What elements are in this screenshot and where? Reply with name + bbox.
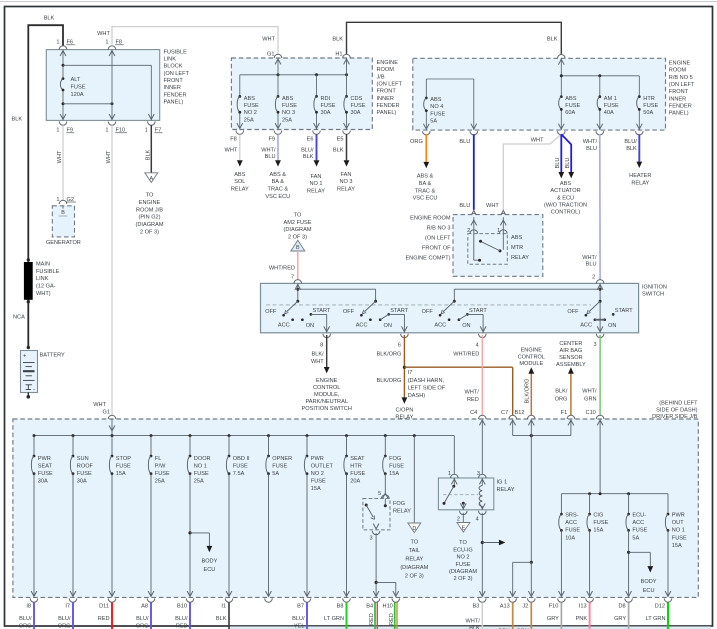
connector pin 6 [398, 334, 408, 349]
svg-text:C7: C7 [501, 410, 508, 416]
fusible link internal wiring [62, 50, 152, 121]
svg-text:F10: F10 [549, 604, 559, 610]
svg-text:3: 3 [477, 471, 480, 477]
svg-text:WHT: WHT [486, 203, 499, 209]
svg-text:SUN: SUN [77, 456, 89, 462]
svg-text:FAN: FAN [341, 172, 352, 178]
label BLK at R/B No5 [547, 37, 558, 43]
off-page reference E - to ECU-IG NO 2 fuse [449, 523, 477, 583]
connector I7 bottom [65, 591, 76, 610]
wire A8 [136, 602, 151, 629]
svg-text:NO 1: NO 1 [194, 463, 207, 469]
connector I1 bottom [221, 591, 232, 610]
connector pin 8 [320, 334, 330, 349]
svg-text:BLK/: BLK/ [312, 351, 325, 357]
svg-text:ORG: ORG [410, 139, 423, 145]
svg-text:ABS: ABS [430, 97, 441, 103]
svg-text:2 OF 3): 2 OF 3) [454, 576, 473, 582]
svg-text:ECU: ECU [643, 588, 655, 594]
svg-text:E: E [462, 526, 466, 532]
connector IG1 pin 2 [457, 502, 467, 523]
wire I7 [58, 602, 73, 629]
svg-text:NO 3: NO 3 [282, 110, 295, 116]
svg-text:1: 1 [56, 128, 59, 134]
svg-text:30A: 30A [321, 110, 331, 116]
connector H10 bottom [383, 591, 400, 610]
svg-text:FRONT: FRONT [164, 78, 184, 84]
connector B3 bottom [472, 591, 486, 610]
connector 3 fog relay out [369, 524, 379, 542]
svg-text:5A: 5A [632, 535, 639, 541]
connector AM1 out [596, 124, 604, 135]
svg-text:ORG: ORG [136, 624, 149, 629]
svg-text:BLK: BLK [547, 37, 558, 43]
svg-text:OFF: OFF [567, 309, 579, 315]
wire D12 [646, 602, 669, 629]
svg-text:TO: TO [294, 213, 302, 219]
svg-text:RED: RED [467, 397, 479, 403]
connector F10 bottom [549, 591, 565, 610]
svg-text:FUSE: FUSE [71, 85, 86, 91]
wire H10 [389, 602, 397, 629]
svg-text:(ON LEFT: (ON LEFT [425, 236, 451, 242]
svg-text:IGNITION: IGNITION [642, 284, 667, 290]
svg-text:ECU-: ECU- [632, 513, 646, 519]
svg-text:WHT: WHT [225, 148, 238, 154]
svg-text:ABS &: ABS & [417, 174, 434, 180]
svg-text:OFF: OFF [422, 309, 434, 315]
svg-text:FUSE: FUSE [311, 479, 326, 485]
svg-text:7: 7 [291, 275, 294, 281]
svg-text:B8: B8 [337, 604, 344, 610]
svg-text:DRIVER SIDE J/B: DRIVER SIDE J/B [652, 414, 698, 420]
svg-text:WHT: WHT [106, 150, 112, 163]
svg-text:GRN: GRN [584, 396, 596, 402]
wire C4 to IG1 pin 3 [481, 420, 483, 474]
svg-text:30A: 30A [351, 110, 361, 116]
svg-text:ACC: ACC [632, 520, 644, 526]
svg-text:BLK/ORG: BLK/ORG [525, 379, 531, 404]
svg-text:LT GRN: LT GRN [646, 616, 666, 622]
wire B3 [466, 602, 483, 629]
svg-text:BLK: BLK [303, 154, 314, 160]
svg-text:FUSE: FUSE [565, 528, 580, 534]
svg-text:GRY: GRY [614, 616, 626, 622]
svg-text:MTR: MTR [511, 245, 523, 251]
svg-text:FUSE: FUSE [244, 103, 259, 109]
wire BLK to fan no 3 relay [333, 134, 355, 192]
svg-text:(PIN G2): (PIN G2) [138, 215, 160, 221]
wire BLK/WHT pin 8 to ECM [302, 335, 352, 412]
svg-text:BA &: BA & [419, 181, 432, 187]
wire BLU to ABS MTR relay [459, 134, 473, 210]
svg-text:ABS: ABS [234, 172, 245, 178]
svg-text:WHT): WHT) [36, 291, 51, 297]
svg-text:B12: B12 [515, 410, 525, 416]
wire WHT/BLU to ABS ECU [261, 134, 290, 199]
connector IG1 pin 1 [448, 471, 458, 485]
svg-text:F9: F9 [268, 137, 275, 143]
fuse SUN ROOF FUSE 30A [70, 436, 93, 597]
svg-text:ECU-IG: ECU-IG [453, 547, 473, 553]
svg-text:START: START [615, 308, 633, 314]
svg-text:RDI: RDI [321, 96, 331, 102]
svg-text:(ON LEFT: (ON LEFT [377, 81, 403, 87]
svg-text:ENGINE: ENGINE [669, 61, 691, 67]
svg-text:AM2 FUSE: AM2 FUSE [284, 220, 312, 226]
wire BLK top to H1 and R/B No5 [347, 22, 562, 54]
wire WHT F10 to G1 of driver J/B [106, 125, 112, 415]
fuse HTR FUSE 50A [637, 95, 659, 116]
svg-text:G1: G1 [267, 51, 274, 57]
svg-text:FUSE: FUSE [643, 103, 658, 109]
label WHT at G1 [262, 36, 275, 42]
svg-text:10A: 10A [565, 535, 575, 541]
svg-text:WHT/: WHT/ [583, 139, 598, 145]
connector F1 [561, 410, 575, 425]
svg-text:WHT/: WHT/ [466, 618, 481, 624]
svg-text:RED: RED [389, 613, 395, 625]
svg-text:B: B [61, 210, 65, 216]
svg-text:A8: A8 [141, 604, 148, 610]
connector G2 [56, 197, 76, 204]
svg-text:INNER: INNER [669, 96, 686, 102]
connector E6 [307, 123, 321, 143]
fuse PWR OUT NO 1 FUSE 15A [665, 494, 687, 597]
svg-text:OFF: OFF [343, 309, 355, 315]
engine room J/B internal bus [240, 58, 348, 130]
connector E5 [337, 123, 351, 143]
svg-text:1: 1 [105, 40, 108, 46]
wire ORG to ABS ECU [410, 134, 437, 201]
svg-text:BLK: BLK [145, 149, 151, 160]
svg-text:I8: I8 [26, 604, 31, 610]
svg-text:R/B NO 5: R/B NO 5 [669, 75, 693, 81]
svg-text:DASH): DASH) [408, 393, 426, 399]
svg-text:25A: 25A [194, 479, 204, 485]
IG1 relay switch [443, 478, 456, 505]
svg-text:1: 1 [56, 197, 59, 203]
svg-text:ABS: ABS [565, 96, 576, 102]
wire BLK F7 [145, 125, 151, 173]
svg-text:FUSE: FUSE [593, 520, 608, 526]
svg-text:MODULE: MODULE [519, 361, 543, 367]
wire A13 [498, 602, 512, 629]
svg-text:BLU/: BLU/ [19, 616, 32, 622]
svg-text:7.5A: 7.5A [233, 471, 245, 477]
svg-text:(DIAGRAM: (DIAGRAM [284, 227, 312, 233]
svg-text:ACC: ACC [356, 322, 368, 328]
svg-text:WHT/: WHT/ [261, 148, 276, 154]
svg-text:I1: I1 [221, 604, 226, 610]
svg-text:BLK: BLK [332, 36, 343, 42]
svg-text:PANEL): PANEL) [669, 111, 689, 117]
svg-text:2 OF 3): 2 OF 3) [405, 573, 424, 579]
svg-text:PWR: PWR [311, 456, 324, 462]
svg-text:NO 2: NO 2 [244, 110, 257, 116]
svg-text:BLK: BLK [333, 148, 344, 154]
connector H1 into R/B No5 [558, 55, 566, 65]
svg-text:MAIN: MAIN [36, 261, 50, 267]
svg-text:TO: TO [410, 539, 418, 545]
label NCA [13, 315, 25, 321]
fuse SEAT HTR FUSE 20A [344, 436, 366, 597]
svg-text:BLU/: BLU/ [301, 148, 314, 154]
svg-text:5A: 5A [272, 471, 279, 477]
svg-text:BLOCK: BLOCK [164, 64, 183, 70]
svg-text:IG 1: IG 1 [497, 480, 508, 486]
wire to tail relay [413, 436, 415, 523]
svg-text:SWITCH: SWITCH [642, 291, 664, 297]
connector C4 [470, 410, 486, 425]
svg-text:RELAY: RELAY [337, 187, 355, 193]
svg-text:FUSE: FUSE [351, 103, 366, 109]
svg-text:25A: 25A [155, 479, 165, 485]
svg-text:TRAC &: TRAC & [415, 188, 436, 194]
svg-text:BLU/: BLU/ [175, 616, 188, 622]
svg-text:RELAY: RELAY [405, 556, 423, 562]
svg-text:FENDER: FENDER [377, 103, 400, 109]
svg-text:CIG: CIG [593, 513, 603, 519]
fuse ALT FUSE 120A [60, 77, 85, 98]
svg-text:(W/O TRACTION: (W/O TRACTION [544, 202, 587, 208]
wire D8 [614, 602, 629, 629]
connector G1 engine J/B [267, 51, 282, 64]
svg-text:B3: B3 [472, 604, 479, 610]
svg-text:BLK/ORG: BLK/ORG [377, 351, 402, 357]
wire B7 [292, 602, 307, 629]
svg-text:8: 8 [320, 342, 323, 348]
svg-text:40A: 40A [604, 110, 614, 116]
svg-text:VSC ECU: VSC ECU [265, 194, 290, 200]
svg-text:TRAC &: TRAC & [268, 187, 289, 193]
svg-text:BLU/: BLU/ [58, 616, 71, 622]
connector pin 7 [291, 275, 301, 290]
connector pin 3 [593, 334, 603, 348]
connector J2 bottom [522, 591, 535, 610]
svg-text:B10: B10 [177, 604, 187, 610]
connector D8 bottom [618, 591, 632, 610]
svg-text:BA &: BA & [272, 179, 285, 185]
svg-text:1: 1 [145, 128, 148, 134]
svg-text:RED: RED [98, 616, 110, 622]
wire WHT/RED pin 4 to C4 [453, 335, 482, 416]
svg-text:OBD II: OBD II [233, 456, 250, 462]
svg-text:1: 1 [448, 471, 451, 477]
svg-text:WHT: WHT [262, 36, 275, 42]
svg-text:DOOR: DOOR [194, 456, 211, 462]
svg-text:CONTROL): CONTROL) [551, 210, 580, 216]
svg-text:HEATER: HEATER [629, 173, 651, 179]
ignition switch box [261, 283, 667, 332]
svg-text:F1: F1 [561, 410, 568, 416]
svg-text:ROOM J/B: ROOM J/B [136, 207, 163, 213]
svg-text:1: 1 [56, 40, 59, 46]
svg-text:NO 3: NO 3 [339, 179, 352, 185]
svg-text:SENSOR: SENSOR [559, 355, 583, 361]
svg-text:(12 GA-: (12 GA- [36, 284, 56, 290]
svg-text:25A: 25A [244, 117, 254, 123]
connector unused bottom [265, 591, 273, 602]
wire C10 to acc bus [599, 420, 601, 494]
svg-text:FUSE: FUSE [155, 471, 170, 477]
svg-text:D12: D12 [655, 604, 665, 610]
svg-text:D: D [412, 526, 416, 532]
connector A13 bottom [500, 591, 517, 610]
label WHT top [97, 31, 110, 37]
svg-text:A: A [149, 176, 153, 182]
svg-text:FAN: FAN [311, 174, 322, 180]
svg-text:NO 2: NO 2 [456, 555, 469, 561]
svg-text:I7: I7 [408, 370, 413, 376]
svg-text:TO: TO [146, 193, 154, 199]
svg-text:ECU: ECU [203, 567, 215, 573]
branch ECU-ACC to body ECU [627, 551, 657, 594]
svg-text:1: 1 [497, 228, 500, 234]
svg-text:PANEL): PANEL) [377, 110, 397, 116]
connector F8 top [105, 40, 123, 56]
svg-text:WHT: WHT [97, 31, 110, 37]
svg-text:25A: 25A [282, 117, 292, 123]
svg-text:ABS: ABS [511, 235, 522, 241]
ignition switch section 2 (IG1) [343, 300, 409, 333]
wire WHT F9 to generator [57, 125, 63, 200]
svg-text:SEAT: SEAT [350, 456, 365, 462]
svg-text:I7: I7 [65, 604, 70, 610]
svg-text:(DIAGRAM: (DIAGRAM [449, 569, 477, 575]
wire IG1 pin2 to off-page E [462, 513, 464, 523]
svg-text:FUSE: FUSE [430, 111, 445, 117]
svg-text:B: B [296, 245, 300, 251]
fuse CIG FUSE 15A [587, 494, 609, 597]
svg-text:BLU: BLU [459, 139, 470, 145]
svg-text:ACC: ACC [565, 520, 577, 526]
svg-text:C10: C10 [586, 410, 596, 416]
svg-text:BLK: BLK [626, 146, 637, 152]
connector H1 [335, 51, 350, 64]
svg-text:FUSIBLE: FUSIBLE [36, 269, 60, 275]
svg-text:HTR: HTR [643, 96, 655, 102]
svg-text:ASSEMBLY: ASSEMBLY [556, 362, 586, 368]
svg-text:NO 1: NO 1 [672, 528, 685, 534]
svg-text:FUSE: FUSE [194, 471, 209, 477]
wire J2 [517, 602, 531, 629]
svg-text:FENDER: FENDER [669, 103, 692, 109]
svg-text:RELAY: RELAY [497, 487, 515, 493]
fusible link block box [46, 49, 189, 120]
svg-text:WHT/: WHT/ [465, 389, 480, 395]
generator [46, 206, 81, 246]
inline connector WHT [500, 210, 508, 217]
svg-text:BLU: BLU [586, 146, 597, 152]
ignition mechanical linkage dashed line [266, 304, 591, 306]
svg-text:CENTER: CENTER [559, 341, 582, 347]
svg-text:INNER: INNER [164, 85, 181, 91]
svg-text:5: 5 [378, 491, 381, 497]
svg-text:START: START [390, 308, 408, 314]
svg-text:FRONT: FRONT [669, 89, 689, 95]
wire WHT/GRN pin 3 to C10 [582, 335, 600, 416]
svg-text:ORG: ORG [555, 396, 568, 402]
svg-text:ENGINE: ENGINE [377, 60, 399, 66]
wire WHT/RED AM2 to ignition pin 7 [269, 251, 298, 280]
svg-text:2: 2 [467, 228, 470, 234]
svg-text:BLU/: BLU/ [292, 616, 305, 622]
svg-text:BODY: BODY [201, 558, 217, 564]
svg-text:ENGINE: ENGINE [316, 378, 338, 384]
svg-text:ABS &: ABS & [270, 172, 287, 178]
connector D11 bottom [99, 591, 116, 610]
svg-text:2 OF 3): 2 OF 3) [288, 234, 307, 240]
svg-text:FUSE: FUSE [272, 463, 287, 469]
svg-text:BLK/ORG: BLK/ORG [377, 378, 402, 384]
svg-text:LT GRN: LT GRN [324, 616, 344, 622]
svg-text:(DIAGRAM: (DIAGRAM [400, 565, 428, 571]
wire B4 [369, 602, 377, 629]
connector B4 bottom [366, 591, 380, 610]
svg-text:LEFT SIDE OF: LEFT SIDE OF [408, 386, 446, 392]
svg-text:CDS: CDS [351, 96, 363, 102]
svg-text:PANEL): PANEL) [164, 99, 184, 105]
ignition switch section 4 (ACC) [567, 300, 633, 333]
fuse ECU- ACC FUSE 5A [626, 494, 648, 597]
IG 1 relay box [438, 478, 514, 510]
wire BLU/BLK to fan relay [301, 134, 325, 194]
svg-text:SRS-: SRS- [565, 513, 579, 519]
wire B10 [175, 602, 190, 629]
svg-text:ENGINE: ENGINE [139, 200, 161, 206]
svg-text:6: 6 [398, 342, 401, 348]
svg-text:ABS: ABS [560, 181, 571, 187]
svg-text:STOP: STOP [116, 456, 131, 462]
svg-text:POSITION SWITCH: POSITION SWITCH [302, 406, 352, 412]
svg-text:ON: ON [306, 323, 314, 329]
wire - main BLK battery feed [28, 25, 63, 348]
main fusible link [24, 258, 60, 303]
svg-text:TAIL: TAIL [409, 548, 420, 554]
svg-text:5A: 5A [430, 118, 437, 124]
fuse DOOR NO 1 FUSE 25A [187, 436, 210, 597]
connector A8 bottom [141, 591, 155, 610]
connector F9 bottom [268, 123, 281, 143]
connector HTR out [636, 124, 644, 135]
connector I13 bottom [579, 591, 594, 610]
svg-text:GENERATOR: GENERATOR [46, 240, 81, 246]
svg-text:60A: 60A [565, 110, 575, 116]
svg-text:B4: B4 [366, 604, 373, 610]
svg-text:2: 2 [592, 275, 595, 281]
connector B12 [515, 410, 536, 425]
connector G1 driver J/B [93, 402, 116, 435]
svg-text:BLU/: BLU/ [136, 616, 149, 622]
fog relay contacts [365, 499, 387, 520]
svg-text:J/B: J/B [377, 74, 385, 80]
svg-text:CONTROL: CONTROL [518, 354, 545, 360]
svg-text:BATTERY: BATTERY [40, 352, 66, 358]
svg-text:ON: ON [608, 323, 616, 329]
svg-text:WHT: WHT [93, 402, 106, 408]
svg-text:ACC: ACC [434, 322, 446, 328]
svg-text:FUSE: FUSE [604, 103, 619, 109]
wires BLU to ABS actuator [544, 134, 587, 215]
svg-text:BLK/: BLK/ [555, 388, 568, 394]
svg-text:H1: H1 [335, 51, 342, 57]
svg-text:BLK: BLK [44, 15, 55, 21]
svg-text:LINK: LINK [164, 57, 177, 63]
svg-text:R/B NO 3: R/B NO 3 [427, 226, 451, 232]
wire fog relay to B4 and H10 [375, 533, 396, 596]
svg-text:(BEHIND LEFT: (BEHIND LEFT [659, 400, 698, 406]
